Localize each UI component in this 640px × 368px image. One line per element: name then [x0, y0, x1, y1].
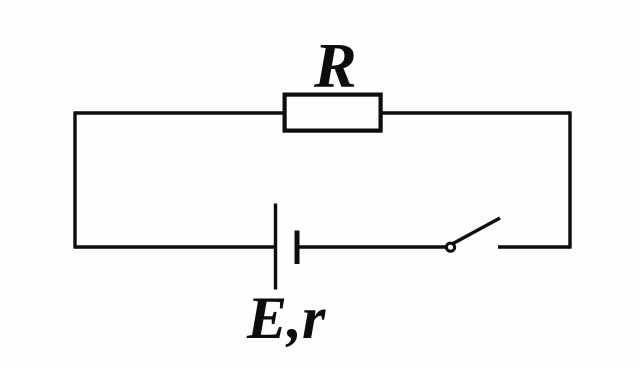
battery long plate (positive)	[274, 204, 277, 290]
wire bottom-left segment	[75, 245, 276, 248]
switch pivot circle	[446, 243, 454, 251]
wire bottom-middle segment	[298, 245, 446, 248]
wire right vertical	[568, 111, 571, 248]
wire left vertical	[73, 111, 76, 248]
resistor R	[285, 95, 381, 131]
wire top-right segment	[382, 111, 570, 114]
wire bottom-right segment	[498, 245, 570, 248]
svg-text:E,r: E,r	[246, 285, 326, 351]
wire top-left segment	[75, 111, 284, 114]
battery short plate (negative)	[295, 231, 300, 265]
svg-text:R: R	[313, 30, 357, 101]
switch lever	[453, 218, 500, 244]
